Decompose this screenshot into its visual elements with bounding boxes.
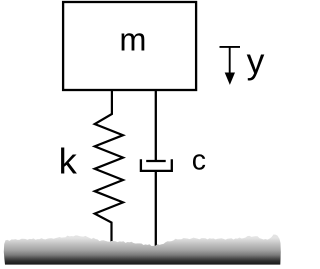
displacement arrow y: shaft [229, 47, 231, 74]
mass m [63, 2, 196, 90]
displacement arrow y: head [225, 73, 235, 85]
damper c cylinder cup [141, 159, 172, 171]
svg-text:k: k [59, 141, 78, 182]
damper c piston [146, 160, 166, 162]
svg-text:y: y [247, 41, 265, 81]
svg-text:c: c [192, 145, 206, 177]
displacement arrow y: top bar [220, 46, 241, 48]
ground [4, 235, 281, 265]
svg-text:m: m [119, 22, 146, 58]
damper c upper rod [155, 90, 157, 161]
spring k [95, 90, 123, 248]
damper c lower rod [155, 171, 157, 250]
